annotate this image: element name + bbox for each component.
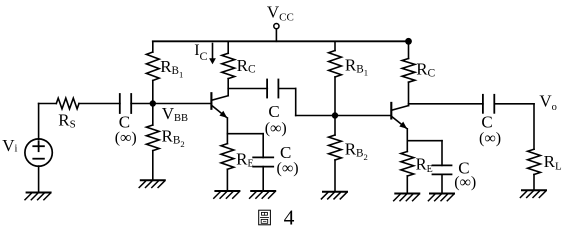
svg-text:C: C — [481, 113, 492, 132]
svg-text:(∞): (∞) — [277, 160, 299, 177]
svg-text:RB1: RB1 — [160, 57, 183, 79]
svg-text:(∞): (∞) — [115, 130, 137, 147]
svg-text:RC: RC — [237, 56, 256, 76]
svg-text:VBB: VBB — [162, 104, 188, 124]
svg-text:(∞): (∞) — [265, 120, 287, 137]
svg-text:RL: RL — [544, 152, 562, 172]
svg-text:(∞): (∞) — [454, 174, 476, 191]
svg-text:Vo: Vo — [539, 92, 557, 113]
svg-text:RE: RE — [416, 155, 433, 175]
svg-text:RS: RS — [58, 111, 75, 131]
svg-text:(∞): (∞) — [479, 130, 501, 147]
svg-text:VCC: VCC — [267, 2, 294, 23]
svg-text:RB1: RB1 — [345, 56, 368, 78]
svg-text:4: 4 — [284, 206, 295, 228]
svg-text:RB2: RB2 — [162, 127, 185, 149]
svg-text:C: C — [268, 102, 279, 121]
svg-text:Vi: Vi — [2, 136, 17, 155]
svg-text:RB2: RB2 — [345, 140, 368, 162]
svg-text:IC: IC — [194, 42, 207, 63]
svg-text:RE: RE — [236, 150, 253, 170]
svg-text:RC: RC — [416, 59, 435, 79]
